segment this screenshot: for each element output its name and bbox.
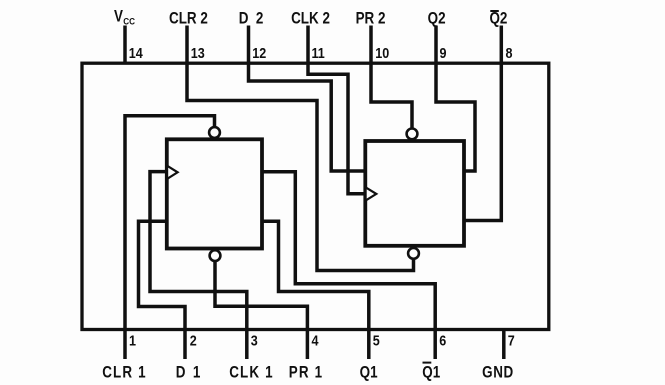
wire Q2bar: U2 Qbar output to pin 8 xyxy=(464,26,501,221)
flip-flop U2 (right) box xyxy=(365,141,464,246)
svg-text:3: 3 xyxy=(251,333,258,349)
svg-text:4: 4 xyxy=(312,333,319,349)
svg-text:1: 1 xyxy=(129,333,136,349)
svg-text:11: 11 xyxy=(312,45,326,61)
svg-text:7: 7 xyxy=(508,333,515,349)
flip-flop U1 (left) box xyxy=(167,139,262,248)
svg-text:9: 9 xyxy=(440,45,447,61)
svg-text:Q1: Q1 xyxy=(422,364,440,381)
label Q2-bar (pin 8) xyxy=(489,10,507,27)
svg-text:6: 6 xyxy=(439,333,446,349)
outer IC package box xyxy=(82,63,549,329)
svg-text:PR 1: PR 1 xyxy=(289,364,324,381)
wire Q1bar: U1 upper output to pin 6 xyxy=(262,172,435,359)
wire Q2: U2 Q output to pin 9 xyxy=(436,26,475,172)
svg-text:Q1: Q1 xyxy=(360,364,378,381)
U2 preset bubble (top of right flip-flop) xyxy=(407,129,418,140)
wire D1: pin 2 to U1 D input xyxy=(139,221,186,359)
svg-text:V: V xyxy=(114,8,123,25)
svg-text:14: 14 xyxy=(129,45,143,61)
wire CLR2: pin 13 to U2 clear bubble xyxy=(187,26,414,271)
pin 14 stub (VCC) xyxy=(123,26,127,64)
svg-text:CLK 2: CLK 2 xyxy=(291,10,330,27)
U2 clock edge triangle xyxy=(366,187,377,200)
wire D2: pin 12 to U2 D input xyxy=(249,26,366,172)
label Q1-bar (pin 6) xyxy=(422,363,440,382)
wire CLK1: pin 3 to U1 clock input xyxy=(150,172,247,359)
svg-text:8: 8 xyxy=(506,45,513,61)
svg-text:12: 12 xyxy=(252,45,266,61)
label VCC (pin 14) xyxy=(114,8,136,27)
svg-text:Q2: Q2 xyxy=(489,10,507,27)
U1 clear bubble (top of left flip-flop) xyxy=(209,127,220,138)
wire Q1: U1 lower output to pin 5 xyxy=(262,221,369,359)
svg-text:10: 10 xyxy=(375,45,389,61)
wire PR1: pin 4 to U1 preset bubble xyxy=(215,262,307,359)
U2 clear bubble (bottom of right flip-flop) xyxy=(408,248,419,259)
svg-text:D 1: D 1 xyxy=(176,364,202,381)
svg-text:5: 5 xyxy=(373,333,380,349)
U1 clock edge triangle xyxy=(167,166,178,179)
svg-text:CC: CC xyxy=(123,16,135,27)
svg-text:CLR 1: CLR 1 xyxy=(102,364,147,381)
svg-text:CLR 2: CLR 2 xyxy=(169,10,208,27)
wire PR2: pin 10 to U2 preset bubble xyxy=(371,26,412,129)
svg-text:13: 13 xyxy=(191,45,205,61)
svg-text:GND: GND xyxy=(482,364,514,381)
svg-text:Q2: Q2 xyxy=(428,10,446,27)
pin 7 stub (GND) xyxy=(502,330,506,359)
wire CLR1: pin 1 to U1 clear bubble xyxy=(125,116,215,359)
wire CLK2: pin 11 to U2 clock input xyxy=(308,26,365,194)
svg-text:PR 2: PR 2 xyxy=(356,10,386,27)
svg-text:D 2: D 2 xyxy=(239,10,265,27)
svg-text:CLK 1: CLK 1 xyxy=(229,364,274,381)
svg-text:2: 2 xyxy=(190,333,197,349)
U1 preset bubble (bottom of left flip-flop) xyxy=(210,250,221,261)
